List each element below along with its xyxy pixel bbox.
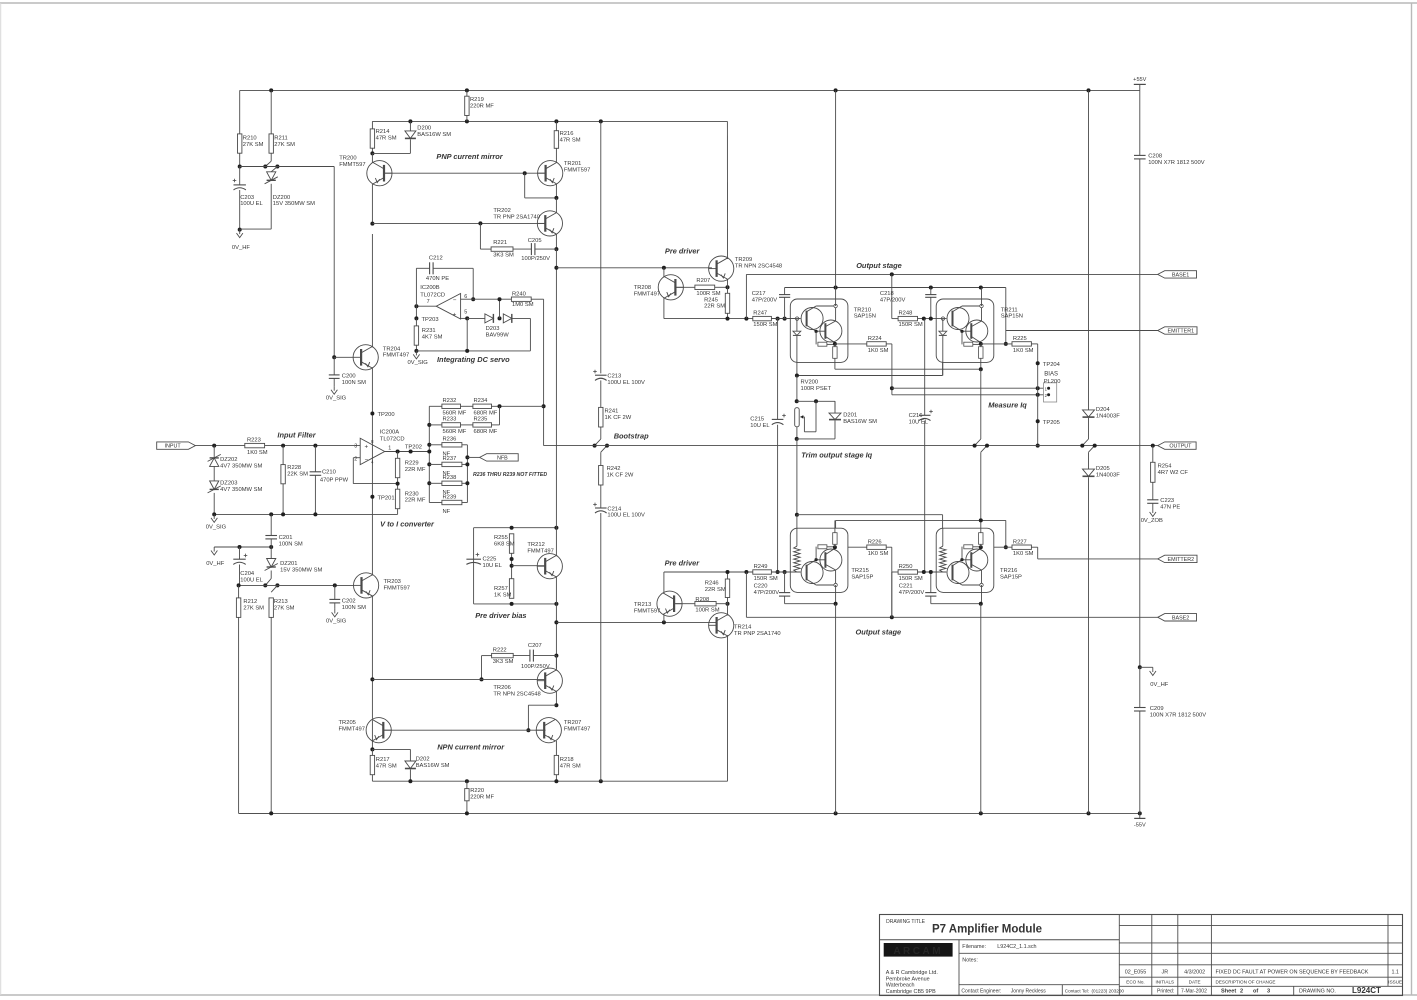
wire bias box bottom	[474, 603, 557, 605]
svg-text:SAP15N: SAP15N	[854, 314, 876, 320]
svg-text:470N PE: 470N PE	[426, 276, 449, 282]
node TR206/TR207	[554, 703, 558, 707]
resistor R240	[511, 291, 533, 308]
node cross C218	[929, 286, 933, 290]
wire C201 top	[270, 514, 272, 535]
svg-text:R233: R233	[443, 417, 457, 423]
svg-text:TL072CD: TL072CD	[420, 293, 445, 299]
wire C218 bottom	[930, 297, 932, 318]
svg-text:1N4003F: 1N4003F	[1096, 413, 1120, 419]
svg-text:+: +	[453, 311, 457, 318]
svg-text:R229: R229	[405, 461, 419, 467]
resistor R220	[465, 788, 495, 801]
svg-text:FMMT497: FMMT497	[564, 727, 590, 733]
node rail bootstrap	[599, 779, 603, 783]
resistor R233	[442, 417, 467, 435]
wire TR200 top	[371, 153, 373, 162]
svg-text:DRAWING NO.: DRAWING NO.	[1299, 988, 1336, 994]
node sig gnd b	[269, 512, 273, 516]
node Q TR216	[979, 518, 983, 522]
resistor R222	[492, 648, 514, 665]
node R231 gnd	[414, 349, 418, 353]
capacitor C203	[233, 179, 264, 208]
svg-text:R237: R237	[443, 456, 457, 462]
wire TR200 to TR202 base	[372, 222, 545, 224]
svg-text:22R SM: 22R SM	[704, 304, 725, 310]
wire TR215 collector col down	[835, 585, 837, 604]
resistor R217	[370, 755, 397, 774]
svg-text:4R7 W2 CF: 4R7 W2 CF	[1158, 470, 1189, 476]
wire R224 line	[835, 343, 867, 345]
TR215 internal wiring	[806, 547, 836, 585]
wire IC200B output	[416, 305, 436, 307]
node TR200 collector	[370, 222, 374, 226]
node R217 top	[370, 747, 374, 751]
svg-text:FMMT497: FMMT497	[383, 353, 409, 359]
node R248 b	[929, 317, 933, 321]
svg-text:R249: R249	[754, 564, 768, 570]
svg-text:R222: R222	[493, 648, 507, 654]
svg-text:560R MF: 560R MF	[443, 429, 467, 435]
wire R223 to opamp	[265, 445, 361, 447]
wire +55V stub	[1139, 84, 1141, 90]
wire BASE1 line	[746, 273, 1157, 275]
node TP col rail	[1036, 444, 1040, 448]
svg-text:100U EL 100V: 100U EL 100V	[607, 380, 645, 386]
node R229/R230	[396, 482, 400, 486]
label TR215	[851, 568, 873, 580]
link output T2col	[973, 439, 989, 452]
wire RV200 body bottom	[796, 427, 798, 439]
capacitor C202	[329, 599, 366, 611]
wire R227 line	[994, 546, 1012, 548]
wire TR206 emitter	[555, 691, 557, 706]
connector PL200 BIAS	[1044, 383, 1057, 402]
svg-text:TL072CD: TL072CD	[380, 437, 405, 443]
wire TR212 collector	[555, 528, 557, 557]
label TR216	[1000, 568, 1022, 580]
transistor TR207	[536, 718, 590, 743]
wire TR216 collector col down	[981, 585, 983, 604]
svg-text:3K3 SM: 3K3 SM	[493, 253, 514, 259]
wire RV200 top row	[797, 401, 835, 410]
node R255 top	[510, 526, 514, 530]
capacitor C212	[430, 262, 434, 274]
wire R214 top row	[372, 120, 727, 122]
svg-text:100N X7R 1812 500V: 100N X7R 1812 500V	[1150, 713, 1207, 719]
wire C218 top	[930, 288, 932, 295]
node R250 b	[929, 570, 933, 574]
node TR206 junction	[554, 620, 558, 624]
wire R237 right	[462, 463, 468, 465]
wire R239 right	[462, 502, 468, 504]
svg-text:27K SM: 27K SM	[243, 605, 264, 611]
svg-text:Integrating DC servo: Integrating DC servo	[437, 355, 510, 364]
resistor R221	[491, 240, 514, 259]
node TR212 base node	[510, 564, 514, 568]
ground 0V_SIG input	[206, 514, 227, 530]
wire D200 bottom	[372, 139, 410, 153]
node link B	[275, 165, 279, 169]
node BASE1 R248	[890, 272, 894, 276]
wire R218 bottom	[555, 775, 557, 782]
svg-text:Pre driver: Pre driver	[665, 246, 701, 255]
wire link to R213	[271, 585, 277, 592]
wire TR213 emitter	[663, 614, 665, 623]
node TP205	[1036, 419, 1040, 423]
capacitor C205	[528, 238, 542, 255]
node pre-driver tap	[370, 677, 374, 681]
node R248 a	[922, 317, 926, 321]
svg-text:7-Mar-2002: 7-Mar-2002	[1181, 988, 1207, 994]
wire TR200 base to TR201	[385, 172, 546, 174]
svg-text:27K SM: 27K SM	[274, 142, 295, 148]
node TP204	[1036, 361, 1040, 365]
svg-text:1K0 SM: 1K0 SM	[868, 551, 889, 557]
svg-text:22R SM: 22R SM	[705, 587, 726, 593]
node rail D202	[408, 779, 412, 783]
node R214/D200	[370, 151, 374, 155]
node out R229	[396, 450, 400, 454]
TR211 emitter resistor Re2	[979, 347, 983, 359]
transistor TR214	[709, 613, 781, 638]
node L1 right	[979, 367, 983, 371]
wire EMITTER1 line	[1006, 330, 1158, 332]
ground 0V_ZOB	[1141, 509, 1163, 524]
wire mirror column mid	[555, 268, 557, 528]
svg-text:Pre driver bias: Pre driver bias	[475, 611, 526, 620]
wire R222 branch	[482, 656, 492, 680]
svg-text:47R SM: 47R SM	[560, 137, 581, 143]
resistor R238	[442, 475, 462, 496]
wire R220 bottom	[466, 801, 468, 814]
wire R213 bottom	[270, 617, 272, 813]
TR215 internal T2	[820, 549, 842, 571]
svg-text:TP205: TP205	[1043, 420, 1060, 426]
wire R254 top	[1152, 446, 1154, 463]
node pin5	[465, 316, 469, 320]
wire D203 mid up	[499, 299, 501, 318]
resistor R254	[1151, 462, 1189, 482]
svg-text:1K0 SM: 1K0 SM	[247, 450, 268, 456]
wire C202 bottom	[334, 603, 336, 609]
svg-text:TR208: TR208	[634, 285, 651, 291]
node R245 b	[726, 317, 730, 321]
node R211 top junction	[269, 88, 273, 92]
ARCAM logo	[884, 943, 953, 957]
svg-text:of: of	[1253, 989, 1258, 995]
label C215	[750, 416, 764, 422]
resistor R213	[269, 598, 295, 618]
svg-text:-55V: -55V	[1134, 822, 1146, 828]
ground 0V_SIG C202	[326, 609, 347, 625]
svg-text:INPUT: INPUT	[164, 444, 181, 450]
wire EMITTER2 line	[1038, 558, 1158, 560]
wire R219 bottom	[466, 116, 468, 122]
wire pre driver feed	[556, 267, 712, 269]
node R216 top	[554, 119, 558, 123]
svg-text:TR201: TR201	[564, 161, 581, 167]
TR211 internal T2	[966, 320, 988, 342]
title block frame	[880, 915, 1403, 996]
label TP200	[378, 412, 395, 418]
svg-text:D205: D205	[1096, 466, 1110, 472]
svg-text:R223: R223	[247, 437, 261, 443]
zener DZ203	[208, 481, 221, 493]
wire D204 col	[1088, 90, 1090, 410]
node TR208 collector tap	[662, 266, 666, 270]
wire bias box top	[474, 527, 557, 529]
wire R226 line	[848, 546, 867, 548]
wire TR206 base line	[372, 678, 546, 680]
svg-text:1K0 SM: 1K0 SM	[868, 348, 889, 354]
node RV200 wiper top	[814, 399, 818, 403]
svg-text:+55V: +55V	[1133, 77, 1146, 83]
wire TR216 Re1 link	[973, 546, 981, 548]
wire R211 column	[270, 90, 272, 133]
svg-text:1K0 SM: 1K0 SM	[1013, 551, 1034, 557]
wire R249 to box	[771, 571, 800, 573]
svg-text:100U EL: 100U EL	[240, 577, 263, 583]
wire C221 top	[930, 572, 932, 593]
wire row R233	[429, 424, 442, 426]
svg-text:0V_SIG: 0V_SIG	[326, 395, 347, 401]
flag BASE2	[1158, 614, 1197, 622]
svg-text:EMITTER2: EMITTER2	[1168, 557, 1195, 563]
svg-text:FMMT497: FMMT497	[634, 291, 660, 297]
svg-text:150R SM: 150R SM	[753, 322, 777, 328]
transistor TR208	[634, 275, 684, 300]
node pre driver top tap	[554, 266, 558, 270]
wire R234 right	[492, 405, 544, 407]
wire R242 to C214	[600, 485, 602, 508]
svg-text:FMMT497: FMMT497	[339, 727, 365, 733]
node TP201	[370, 495, 374, 499]
svg-text:22K SM: 22K SM	[287, 471, 308, 477]
svg-text:4V7 350MW SM: 4V7 350MW SM	[220, 487, 262, 493]
svg-text:TP200: TP200	[378, 412, 395, 418]
wire right column upper	[1139, 90, 1141, 155]
label TR211	[1001, 307, 1023, 319]
wire TR204 base	[334, 356, 353, 358]
wire TR211 diode col	[942, 319, 944, 332]
svg-text:−: −	[453, 297, 457, 304]
svg-text:TR212: TR212	[527, 542, 544, 548]
svg-text:680R MF: 680R MF	[474, 410, 498, 416]
svg-text:SAP15P: SAP15P	[1000, 574, 1022, 580]
svg-text:BASE2: BASE2	[1172, 615, 1189, 621]
TR211 emitter resistor Re1	[964, 342, 973, 346]
wire R226 right	[886, 547, 892, 617]
wire R211 to link	[265, 153, 271, 166]
wire R212 top	[238, 585, 240, 598]
wire TR201-TR202	[555, 198, 557, 213]
TR215 pin marker bottom	[834, 583, 837, 586]
TR215 internal T1	[801, 562, 823, 584]
wire nf col	[466, 445, 468, 503]
svg-text:10U EL: 10U EL	[909, 420, 929, 426]
wire row R238	[429, 482, 442, 484]
capacitor C204	[233, 554, 263, 584]
flag EMITTER2	[1158, 555, 1197, 563]
svg-text:100N SM: 100N SM	[342, 605, 366, 611]
wire C217 bottom	[784, 297, 786, 318]
svg-text:ISSUE: ISSUE	[1388, 979, 1402, 984]
wire pin6	[461, 298, 474, 300]
TR216 emitter resistor Re2	[979, 533, 983, 545]
ground 0V_SIG servo	[408, 351, 429, 366]
node nf col 483	[465, 481, 469, 485]
wire TR215 col to rail	[835, 604, 837, 814]
wire L2 diode link	[797, 362, 943, 375]
svg-text:TR216: TR216	[1000, 568, 1017, 574]
svg-text:Contact Tel:: Contact Tel:	[1065, 988, 1089, 993]
wire C214 bottom	[600, 513, 602, 781]
node TP200	[370, 412, 374, 416]
flag OUTPUT	[1158, 442, 1196, 450]
svg-text:R218: R218	[560, 757, 574, 763]
node PL200 w1	[890, 386, 894, 390]
node fb col 424	[427, 423, 431, 427]
capacitor C223	[1147, 498, 1180, 510]
node TR201 base feedback	[523, 171, 527, 175]
node rail R218	[554, 779, 558, 783]
svg-text:R216: R216	[560, 131, 574, 137]
svg-text:100R PSET: 100R PSET	[801, 386, 832, 392]
wire R245 bottom	[727, 313, 729, 318]
wire TR209 emitter	[727, 279, 729, 287]
svg-text:DZ203: DZ203	[220, 480, 237, 486]
wire line P	[797, 515, 943, 529]
wire 0V_HF row	[214, 546, 271, 548]
wire cross to R225	[1005, 288, 1007, 344]
transistor TR213	[634, 591, 682, 616]
node TR207 base	[526, 728, 530, 732]
resistor R208	[695, 597, 720, 614]
wire TR215 Re2 link	[834, 544, 836, 547]
svg-text:15V 350MW SM: 15V 350MW SM	[273, 201, 315, 207]
wire R231 bottom	[415, 345, 417, 351]
capacitor C210	[310, 470, 336, 476]
TR210 emitter resistor Re1	[818, 342, 827, 346]
wire TR210 diode col low	[796, 335, 798, 375]
svg-text:BAS16W SM: BAS16W SM	[843, 419, 877, 425]
transistor TR201	[538, 161, 591, 186]
resistor R212	[236, 598, 264, 618]
node line P left	[795, 513, 799, 517]
node R257 bottom	[510, 602, 514, 606]
node C220 top	[783, 570, 787, 574]
svg-text:C205: C205	[528, 238, 542, 244]
diode D200	[405, 125, 451, 138]
wire R254 to C223	[1152, 482, 1154, 500]
wire IC200A out	[385, 451, 430, 453]
svg-text:C216: C216	[909, 413, 923, 419]
svg-text:R255: R255	[494, 535, 508, 541]
node TP202	[409, 450, 413, 454]
wire mirror down	[555, 249, 557, 268]
node C221 line TR216	[979, 602, 983, 606]
node brail TR215	[834, 811, 838, 815]
svg-text:Contact Engineer:: Contact Engineer:	[961, 988, 1001, 994]
node cross TR210	[834, 286, 838, 290]
wire C209 bottom	[1139, 711, 1141, 813]
wire R231 top	[415, 318, 417, 326]
svg-text:L924C2_1.1.sch: L924C2_1.1.sch	[997, 944, 1036, 950]
svg-text:1.1: 1.1	[1391, 970, 1399, 976]
svg-text:R221: R221	[493, 240, 507, 246]
svg-text:R239: R239	[443, 494, 457, 500]
wire D205 col	[1088, 452, 1090, 469]
svg-text:47P/200V: 47P/200V	[754, 590, 780, 596]
resistor R237	[442, 456, 462, 477]
label DZ201	[280, 561, 322, 573]
wire T2col through rail upper	[980, 369, 982, 439]
wire TR210 Re1 to Re2	[827, 343, 835, 345]
wire C216 col lower	[924, 421, 926, 572]
wire TR210 Re2 out	[834, 358, 836, 369]
svg-text:DATE: DATE	[1189, 979, 1201, 984]
svg-text:R234: R234	[474, 398, 489, 404]
resistor R250	[898, 564, 923, 582]
node base2 drop	[744, 570, 748, 574]
wire T2col through rail lower	[980, 452, 982, 520]
wire R221 branch	[480, 223, 491, 249]
resistor R255	[494, 534, 515, 554]
link output D20x	[1080, 439, 1096, 452]
resistor R241	[599, 407, 632, 427]
wire fb col left	[428, 406, 430, 502]
svg-text:100N SM: 100N SM	[342, 380, 366, 386]
ground 0V_HF left	[232, 230, 251, 251]
resistor R216	[554, 131, 581, 149]
resistor R230	[395, 489, 425, 509]
capacitor C221	[899, 584, 937, 596]
svg-text:C214: C214	[607, 506, 622, 512]
diode D202	[405, 756, 450, 768]
node TP204 col w1	[1036, 386, 1040, 390]
wire TR211 Re2 out	[980, 358, 982, 369]
capacitor C207	[530, 650, 534, 662]
resistor R227	[1012, 539, 1034, 557]
wire C203 top	[239, 167, 241, 185]
wire R245 top	[727, 287, 729, 293]
transistor TR200	[339, 156, 392, 186]
diode D201	[829, 413, 877, 425]
wire TR210 collector col	[835, 288, 837, 307]
svg-text:27K SM: 27K SM	[243, 142, 264, 148]
svg-text:Trim output stage Iq: Trim output stage Iq	[801, 450, 872, 459]
svg-text:R211: R211	[274, 135, 287, 141]
svg-text:FMMT597: FMMT597	[634, 608, 660, 614]
label DZ203	[220, 480, 262, 492]
wire R227 right	[1031, 547, 1037, 559]
node R228 top	[281, 444, 285, 448]
capacitor C208	[1134, 153, 1205, 165]
svg-text:R210: R210	[243, 135, 257, 141]
capacitor C213	[593, 370, 645, 386]
wire R229-R230	[397, 478, 399, 490]
svg-text:Measure Iq: Measure Iq	[988, 400, 1027, 409]
resistor R225	[1012, 336, 1034, 354]
label C207	[528, 643, 542, 649]
wire C220 top	[784, 572, 786, 593]
capacitor C218	[880, 291, 937, 303]
TR210 internal wiring	[806, 306, 836, 344]
node R225 left	[1004, 342, 1008, 346]
svg-text:ECO No.: ECO No.	[1126, 979, 1144, 984]
svg-text:L924CT: L924CT	[1352, 986, 1381, 995]
